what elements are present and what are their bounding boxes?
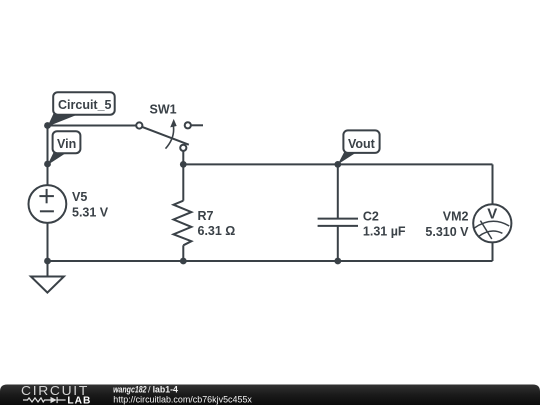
label Circuit_5 — [48, 92, 115, 126]
node A (Vin net, junction with Circuit_5 flag) — [44, 122, 51, 129]
label Vout — [338, 130, 380, 164]
resistor R7 — [174, 201, 236, 246]
wire: VM2 bottom down to bottom rail corner — [492, 242, 494, 261]
ground — [31, 277, 64, 293]
svg-text:R7: R7 — [198, 209, 214, 223]
wire: node B down to R7 — [182, 164, 184, 200]
switch throw 1 terminal (open, with stub) — [191, 124, 203, 126]
svg-text:wangc182: wangc182 — [113, 385, 146, 395]
wire: R7 down to bottom rail — [182, 245, 184, 261]
voltmeter VM2 — [425, 164, 511, 261]
wire: top-left horizontal from node A to switch pole — [48, 125, 137, 127]
node E (ground junction) — [44, 258, 51, 265]
svg-text:http://circuitlab.com/cb76kjv5: http://circuitlab.com/cb76kjv5c455x — [113, 395, 252, 405]
svg-text:VM2: VM2 — [443, 210, 469, 224]
svg-text:C2: C2 — [363, 209, 379, 223]
footer bar — [0, 385, 540, 405]
svg-text:1.31 µF: 1.31 µF — [363, 225, 406, 239]
svg-text:SW1: SW1 — [150, 103, 177, 117]
svg-text:V: V — [487, 206, 497, 223]
node F (bottom rail below C2) — [334, 258, 341, 265]
footer logo resistor-diode art — [23, 397, 66, 403]
wire: bottom rail — [48, 260, 493, 262]
voltage source V5 — [29, 185, 109, 223]
svg-text:5.310 V: 5.310 V — [425, 225, 469, 239]
svg-text:LAB: LAB — [67, 395, 91, 405]
switch SW1 — [136, 103, 203, 151]
node D (bottom rail below R7) — [180, 258, 187, 265]
wire: top rail corner down to VM2 — [492, 164, 494, 205]
node C (Vout junction above C2) — [334, 161, 341, 168]
svg-text:V5: V5 — [72, 190, 87, 204]
svg-text:Vout: Vout — [348, 137, 376, 151]
svg-text:lab1-4: lab1-4 — [153, 385, 178, 395]
wire: vertical from node A down to V5 top — [47, 126, 49, 187]
svg-text:5.31 V: 5.31 V — [72, 205, 109, 219]
wire: switch throw 2 down to node B — [182, 151, 184, 164]
svg-text:Vin: Vin — [57, 137, 76, 151]
switch throw 2 terminal — [180, 145, 186, 151]
node B (top rail junction above R7) — [180, 161, 187, 168]
wire: V5 bottom down to ground junction — [47, 222, 49, 261]
svg-text:6.31 Ω: 6.31 Ω — [198, 224, 236, 238]
wire: top rail from node B to voltmeter corner — [183, 163, 492, 165]
svg-text:Circuit_5: Circuit_5 — [58, 98, 112, 112]
label Vin — [48, 131, 81, 165]
switch pole terminal — [136, 122, 142, 128]
capacitor C2 — [318, 164, 406, 261]
switch arrow — [166, 125, 174, 149]
wire: ground junction down to ground symbol — [47, 261, 49, 277]
wire: node C down to C2 top plate — [337, 164, 339, 218]
node: Vin label attachment on wire — [44, 161, 51, 168]
switch blade — [142, 127, 189, 145]
